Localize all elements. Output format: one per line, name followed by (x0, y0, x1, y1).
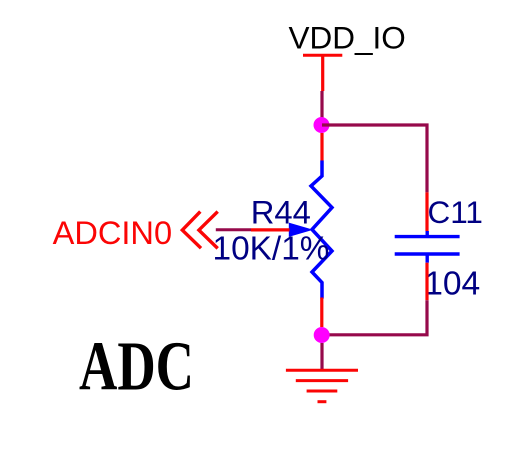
wire (320, 343, 323, 369)
junction node A (314, 117, 330, 133)
wire (425, 192, 428, 231)
junction node B (314, 327, 330, 343)
svg-text:ADCIN0: ADCIN0 (53, 214, 172, 251)
svg-text:104: 104 (424, 266, 480, 303)
wire (251, 228, 290, 231)
ground (286, 370, 358, 402)
wire (320, 298, 323, 328)
wire (320, 133, 323, 161)
wire (320, 91, 323, 120)
svg-text:R44: R44 (251, 194, 311, 231)
port chevrons ADCIN0 (182, 212, 217, 249)
power symbol VDD_IO (303, 55, 342, 91)
capacitor C11 (395, 231, 460, 263)
wire (322, 125, 427, 192)
resistor R44 (311, 161, 332, 299)
wire (216, 228, 251, 231)
wire (425, 263, 428, 301)
svg-text:10K/1%: 10K/1% (213, 230, 330, 267)
svg-text:VDD_IO: VDD_IO (289, 19, 406, 55)
wire (322, 300, 427, 335)
svg-text:ADC: ADC (79, 329, 194, 406)
svg-text:C11: C11 (428, 194, 483, 230)
wiper arrow (289, 223, 313, 237)
